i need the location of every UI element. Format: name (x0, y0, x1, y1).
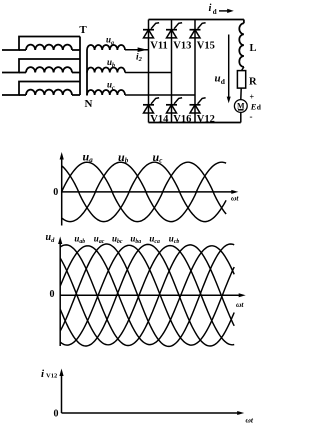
wire phase C input lead (2, 82, 80, 96)
svg-text:N: N (85, 98, 93, 110)
svg-text:ωt: ωt (231, 194, 239, 203)
svg-text:i: i (209, 3, 212, 14)
curve ub (62, 162, 226, 221)
curve uac (60, 246, 234, 345)
wire primary P1 stubs (19, 49, 26, 51)
svg-text:-: - (250, 112, 253, 122)
panel2 vertical axis (59, 240, 61, 346)
wire bridge leg a (148, 20, 150, 123)
primary winding P2 (26, 67, 72, 72)
svg-text:V12: V12 (46, 373, 57, 380)
svg-text:V15: V15 (197, 41, 215, 52)
svg-text:u: u (215, 73, 221, 85)
svg-text:V16: V16 (173, 114, 191, 125)
secondary winding S2 (87, 67, 125, 72)
wire inductor to resistor (242, 67, 244, 71)
svg-text:ωt: ωt (236, 300, 244, 309)
panel1 vertical axis (61, 156, 63, 226)
secondary winding S3 (87, 90, 125, 95)
curve uca (60, 244, 234, 346)
inductor L (239, 23, 244, 67)
primary star bus (79, 37, 81, 96)
current arrow id (219, 10, 229, 12)
wire primary P3 stubs (19, 94, 26, 96)
curve uc (62, 162, 226, 221)
wire positive dc rail (149, 19, 244, 21)
wire primary P2 stubs (19, 72, 26, 74)
thyristor V13 (166, 29, 177, 31)
panel3 horizontal axis (62, 412, 240, 414)
secondary neutral bus N (86, 50, 88, 96)
primary winding P3 (26, 90, 72, 95)
primary winding P1 (26, 45, 72, 50)
curve ua (62, 162, 226, 221)
resistor R (237, 71, 245, 89)
wire motor to bottom rail (240, 112, 242, 122)
svg-text:0: 0 (54, 409, 59, 420)
thyristor V14 (143, 104, 154, 106)
wire bridge leg c (194, 20, 196, 123)
voltage arrow ud (228, 35, 230, 99)
wire phase B input lead (2, 59, 80, 73)
wire phase A input lead (2, 37, 80, 51)
curve ucb (60, 246, 234, 345)
curve uab (60, 245, 234, 346)
wire phase b to bridge (125, 72, 172, 74)
svg-text:d: d (213, 8, 217, 16)
svg-text:V14: V14 (150, 114, 169, 125)
svg-text:T: T (79, 24, 87, 36)
panel2 horizontal axis (60, 294, 240, 296)
current arrow i2 (138, 47, 148, 52)
svg-text:V13: V13 (173, 41, 191, 52)
wire phase c to bridge (125, 94, 195, 96)
svg-text:R: R (249, 77, 257, 88)
motor M (234, 100, 247, 113)
curve ubc (60, 244, 234, 346)
secondary winding S1 (87, 45, 125, 50)
svg-text:E: E (250, 101, 257, 111)
thyristor V12 (190, 104, 201, 106)
svg-text:ωt: ωt (246, 416, 254, 425)
svg-text:L: L (250, 43, 257, 54)
panel3 vertical axis (61, 372, 63, 413)
svg-text:V12: V12 (197, 114, 215, 125)
svg-text:0: 0 (53, 187, 58, 198)
wire phase a to bridge (125, 49, 149, 51)
curve uba (60, 245, 234, 345)
wire top rail corner to inductor (243, 20, 245, 24)
wire bridge leg b (171, 20, 173, 123)
svg-text:0: 0 (50, 289, 55, 300)
panel1 horizontal axis (62, 191, 233, 193)
wire resistor to motor (240, 88, 242, 100)
thyristor V11 (143, 29, 154, 31)
thyristor V16 (166, 104, 177, 106)
wire negative dc rail (149, 122, 241, 124)
thyristor V15 (190, 29, 201, 31)
svg-text:+: + (250, 93, 255, 102)
svg-text:V11: V11 (150, 41, 168, 52)
